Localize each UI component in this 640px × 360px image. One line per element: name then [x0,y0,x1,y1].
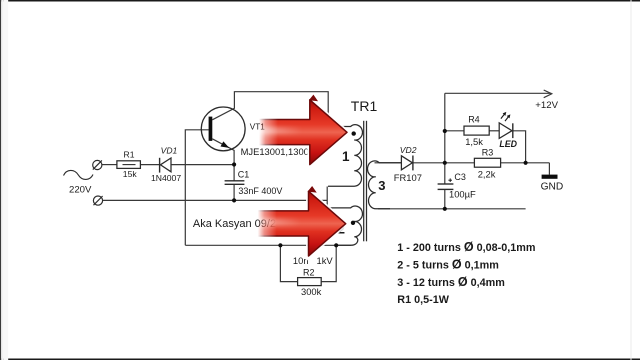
svg-text:1: 1 [342,149,350,164]
svg-text:R1: R1 [124,150,135,160]
svg-text:FR107: FR107 [394,172,422,183]
svg-text:R3: R3 [482,148,494,158]
svg-text:GND: GND [541,182,564,193]
svg-text:R4: R4 [468,115,480,125]
svg-text:15k: 15k [123,169,138,179]
svg-text:+12V: +12V [535,100,558,111]
svg-text:C3: C3 [454,172,466,182]
svg-text:33nF 400V: 33nF 400V [238,186,282,196]
svg-text:3: 3 [378,178,385,193]
svg-text:100µF: 100µF [449,189,476,200]
svg-text:MJE13001,13003: MJE13001,13003 [241,146,315,157]
svg-text:220V: 220V [69,184,92,195]
svg-text:TR1: TR1 [351,98,378,114]
svg-text:1,5k: 1,5k [465,136,483,147]
svg-text:VD1: VD1 [161,145,178,155]
svg-text:2 - 5 turns Ø 0,1mm: 2 - 5 turns Ø 0,1mm [397,258,499,272]
svg-text:R1 0,5-1W: R1 0,5-1W [397,294,449,306]
svg-text:LED: LED [499,139,517,149]
svg-text:1kV: 1kV [317,255,334,266]
svg-text:VD2: VD2 [400,145,417,155]
svg-text:3 - 12 turns Ø 0,4mm: 3 - 12 turns Ø 0,4mm [397,275,505,289]
svg-text:C1: C1 [238,170,250,180]
svg-text:1 - 200 turns Ø 0,08-0,1mm: 1 - 200 turns Ø 0,08-0,1mm [397,240,535,254]
svg-text:2,2k: 2,2k [478,168,496,179]
svg-text:300k: 300k [301,286,322,297]
svg-text:1N4007: 1N4007 [151,173,181,183]
svg-text:R2: R2 [303,268,315,278]
